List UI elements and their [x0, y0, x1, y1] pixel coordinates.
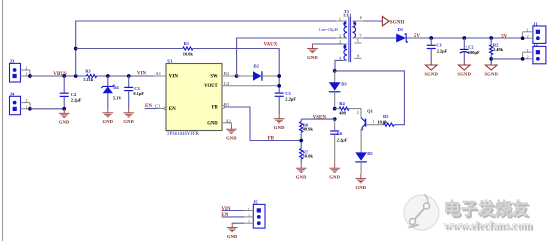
wire aux loop to R5: [335, 71, 405, 125]
svg-text:C4: C4: [71, 92, 77, 97]
resistor R1: [183, 41, 194, 56]
svg-text:D3: D3: [341, 81, 347, 86]
node primary aux: [333, 69, 337, 73]
ground under C4: [59, 109, 70, 125]
ground under J5: [227, 223, 238, 239]
transformer T1: [319, 9, 363, 62]
ground under C5: [274, 114, 285, 130]
pin 5 stub unconnected: [354, 42, 361, 44]
svg-text:C2: C2: [224, 81, 230, 86]
capacitor C2 polarized: [460, 38, 480, 61]
svg-text:SW: SW: [210, 74, 218, 79]
capacitor C5: [275, 91, 297, 114]
resistor R7: [300, 149, 314, 164]
node J1: [521, 36, 525, 40]
node R4 tap: [333, 107, 337, 111]
wire T1 pin6 to SGND port: [364, 20, 382, 22]
svg-text:D1: D1: [398, 27, 404, 32]
svg-text:EN: EN: [169, 107, 176, 112]
svg-text:TPS61046YFFR: TPS61046YFFR: [167, 132, 200, 137]
svg-text:VAUX: VAUX: [264, 43, 278, 48]
connector J1: [523, 21, 546, 43]
pin bubble FB: [222, 106, 225, 109]
ground at T1 pin3: [307, 44, 318, 60]
ground under U1: [226, 125, 237, 141]
node C4 top: [62, 74, 66, 78]
wire GND pin stub: [222, 123, 231, 125]
svg-text:49.9k: 49.9k: [303, 127, 314, 132]
wire EN stub: [145, 108, 157, 110]
diode D2: [237, 64, 280, 81]
svg-text:1: 1: [373, 120, 375, 124]
svg-text:2: 2: [339, 33, 341, 38]
svg-text:Q1: Q1: [367, 109, 374, 114]
node D4 top: [106, 74, 110, 78]
connector J2: [523, 42, 546, 64]
resistor R2: [490, 38, 504, 61]
wire R4 to Q1 base: [335, 109, 361, 118]
node J2: [521, 57, 525, 61]
svg-text:100µF: 100µF: [468, 50, 480, 55]
svg-text:B2: B2: [224, 71, 230, 76]
svg-text:GND: GND: [207, 122, 218, 127]
wire 5V rail: [406, 37, 522, 39]
svg-text:6: 6: [360, 15, 362, 20]
capacitor C4: [60, 76, 82, 108]
svg-text:A1: A1: [155, 71, 161, 76]
capacitor C1: [427, 38, 448, 61]
watermark logo: [404, 194, 439, 230]
transistor Q1: [357, 109, 383, 153]
connector J3: [10, 59, 31, 82]
resistor R6: [300, 119, 314, 132]
svg-text:2.2µF: 2.2µF: [71, 97, 82, 102]
svg-text:10.0k: 10.0k: [377, 120, 388, 125]
node SW: [235, 74, 239, 78]
svg-text:C6: C6: [337, 131, 343, 136]
svg-text:EN: EN: [221, 213, 228, 218]
wire FB to divider: [225, 107, 302, 141]
svg-text:VIN: VIN: [221, 207, 231, 212]
svg-text:www.elecfans.com: www.elecfans.com: [444, 220, 533, 232]
ground under D4: [102, 108, 113, 124]
svg-text:1: 1: [25, 105, 27, 109]
wire VIN pin stub: [154, 75, 167, 77]
svg-text:VIN: VIN: [169, 74, 179, 79]
svg-text:499: 499: [339, 111, 346, 116]
wire SW stub: [222, 75, 237, 77]
svg-text:FB: FB: [268, 137, 275, 142]
ground SGND under R2: [484, 61, 498, 76]
pin bubble EN: [164, 107, 167, 110]
power port SGND off-page: [382, 17, 404, 26]
wire T1 pin7 to D1: [364, 37, 397, 39]
svg-text:10.0k: 10.0k: [303, 153, 314, 158]
node C1 top: [429, 36, 433, 40]
ground under D5: [355, 174, 366, 190]
svg-text:C5: C5: [285, 91, 291, 96]
svg-text:2.2µF: 2.2µF: [337, 137, 348, 142]
svg-text:2.2µF: 2.2µF: [437, 48, 448, 53]
resistor R3: [83, 69, 96, 83]
svg-text:5.1V: 5.1V: [113, 95, 122, 100]
svg-text:电子发烧友: 电子发烧友: [444, 199, 529, 219]
capacitor C3: [124, 76, 144, 108]
wire riser to top rail and top wire to T1 pin1: [76, 21, 336, 76]
node VBUS junction at J3: [28, 74, 32, 78]
node riser junction on VBUS: [74, 74, 78, 78]
svg-text:FB: FB: [212, 106, 218, 111]
node R2 top: [489, 36, 493, 40]
svg-text:D5: D5: [367, 151, 373, 156]
svg-text:D2: D2: [253, 64, 259, 69]
capacitor C6: [330, 119, 348, 164]
svg-text:1: 1: [339, 16, 341, 21]
resistor R5: [377, 114, 394, 126]
diode D3: [329, 71, 348, 109]
svg-text:1: 1: [248, 208, 250, 212]
wire VIN to J5 pin1: [222, 210, 244, 212]
ground SGND under C1: [424, 61, 438, 76]
ground under C6: [329, 164, 340, 180]
ground SGND under C2: [458, 61, 472, 76]
op-amp U1 TPS61046YFFR: [166, 59, 222, 137]
svg-text:2: 2: [527, 55, 529, 59]
wire EN to J5 pin2: [222, 216, 244, 218]
wire R1 to VAUX corner, down to C5: [193, 49, 279, 94]
svg-text:U1: U1: [167, 59, 173, 64]
svg-text:2.2µF: 2.2µF: [285, 96, 296, 101]
svg-text:2: 2: [248, 214, 250, 218]
node C3 top: [127, 74, 131, 78]
node VSEN tap: [333, 117, 337, 121]
node R1 tap: [74, 47, 78, 51]
node C4 bottom / J4 tie: [62, 107, 66, 111]
svg-text:R3: R3: [85, 69, 91, 74]
wire VOUT to VAUX vertical: [222, 85, 279, 87]
svg-text:D4: D4: [113, 85, 119, 90]
svg-text:R5: R5: [383, 114, 389, 119]
wire J5 pin3 to ground: [244, 222, 253, 224]
diode D5: [355, 151, 373, 174]
svg-text:VSEN: VSEN: [313, 115, 327, 120]
node VOUT / C5 top: [277, 84, 281, 88]
svg-text:3: 3: [248, 221, 250, 225]
node C2 top: [462, 36, 466, 40]
svg-text:5V: 5V: [501, 34, 508, 39]
svg-text:2: 2: [357, 111, 359, 115]
connector J5: [248, 200, 265, 228]
svg-text:5.11k: 5.11k: [83, 77, 93, 82]
node FB divider: [299, 139, 303, 143]
svg-text:2: 2: [25, 66, 27, 70]
svg-text:R1: R1: [184, 41, 190, 46]
svg-text:VOUT: VOUT: [204, 84, 218, 89]
svg-text:C1: C1: [155, 103, 161, 108]
svg-text:1: 1: [527, 49, 529, 53]
wire VSEN line: [301, 118, 335, 120]
svg-text:SGND: SGND: [390, 19, 405, 25]
svg-text:C1: C1: [436, 42, 442, 47]
wire J2 to R2 bottom: [491, 58, 522, 60]
wire T1 pin3 to ground: [313, 43, 344, 45]
node J4 junction: [28, 107, 32, 111]
svg-text:2: 2: [527, 35, 529, 39]
zener diode D4: [101, 76, 122, 108]
wire J4 to C4 bottom: [30, 108, 64, 110]
svg-text:R4: R4: [339, 101, 345, 106]
wire SW riser to T1 pin2: [237, 38, 336, 76]
svg-text:10.0k: 10.0k: [183, 51, 194, 56]
wire R1 line left: [76, 48, 183, 50]
schottky diode D1: [396, 27, 407, 42]
connector J4: [10, 92, 31, 115]
svg-text:VIN: VIN: [137, 71, 147, 76]
svg-text:1: 1: [25, 73, 27, 77]
svg-text:2.49k: 2.49k: [493, 47, 504, 52]
svg-text:1: 1: [527, 28, 529, 32]
svg-text:C2: C2: [468, 44, 474, 49]
wire VBUS rail: [30, 75, 154, 77]
watermark text: [444, 199, 535, 234]
svg-text:2: 2: [25, 99, 27, 103]
svg-text:Lm=10µH: Lm=10µH: [319, 27, 338, 32]
wire R6 to R7: [300, 132, 302, 148]
resistor R4: [339, 101, 349, 116]
ground under C3: [123, 108, 134, 124]
pin 8 stub unconnected: [354, 57, 361, 59]
wire T1 pin4 down to node: [335, 60, 344, 71]
svg-text:8: 8: [357, 54, 359, 59]
svg-text:0.1µF: 0.1µF: [133, 91, 144, 96]
node VAUX / D2 cathode: [277, 74, 281, 78]
svg-text:J3: J3: [10, 59, 15, 64]
svg-text:7: 7: [359, 33, 361, 38]
ground under R7: [296, 164, 307, 180]
svg-text:5: 5: [357, 38, 359, 43]
sheet border line: [2, 0, 4, 241]
node R2 bottom / J2 tie: [489, 57, 493, 61]
